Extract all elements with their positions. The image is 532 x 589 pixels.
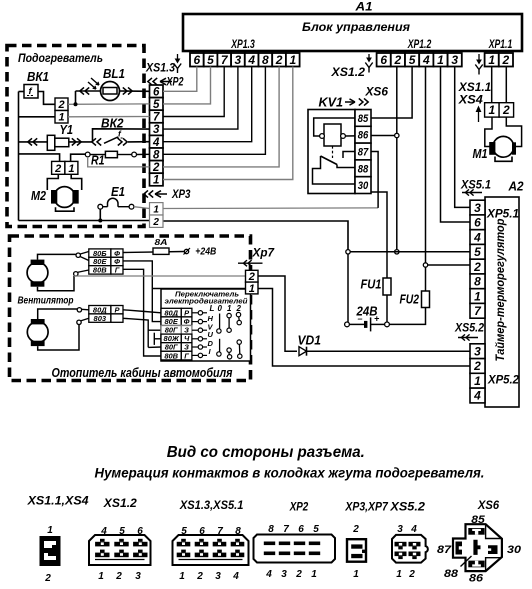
wire 80B row to fuse to +24V: [123, 248, 190, 255]
relay KV1 marker arrows: [345, 98, 368, 105]
connector XS4 pin row 1 2: [485, 103, 514, 118]
svg-text:XS5.2: XS5.2: [389, 502, 425, 514]
face view relay socket XS6: [437, 514, 522, 585]
svg-text:2: 2: [352, 524, 359, 535]
wire XP1.1 pin 1 to XS4 pin 1: [491, 67, 493, 103]
svg-text:86: 86: [358, 130, 369, 142]
connector XP1.3 pin row 6 5 7 3 4 8 2 1: [190, 53, 300, 67]
svg-text:2: 2: [44, 573, 51, 584]
svg-text:3: 3: [281, 569, 287, 580]
wire R1 left terminal to M2 junction 1: [71, 154, 86, 161]
svg-text:3: 3: [397, 524, 403, 535]
wire XP1.2 pin 2 down with node to relay 86: [371, 67, 399, 255]
switch bridge column 2 upper: [236, 312, 241, 324]
svg-text:Г: Г: [184, 351, 189, 360]
wire relay pin 85 to coil: [314, 118, 355, 136]
svg-text:5: 5: [474, 245, 481, 259]
svg-text:XS5.2: XS5.2: [454, 323, 484, 335]
wire E1 right to XP3 pin 1: [134, 207, 150, 209]
wire XS4 pin2 to M1 right brush: [506, 117, 521, 146]
svg-text:803: 803: [94, 314, 107, 323]
svg-text:2: 2: [502, 53, 510, 67]
wire relay pin 88 to contact: [337, 165, 355, 168]
wire XP3 pin2 to battery minus junction: [163, 221, 348, 250]
wire tag boxes 80B/F 80E/F 80V/G: [89, 249, 123, 275]
svg-text:2: 2: [295, 569, 302, 580]
relay contact armature: [321, 156, 338, 165]
svg-text:+24В: +24В: [195, 246, 216, 257]
connector XS1.2 marker: [365, 54, 372, 73]
wire junction2 right, node to lamp and XP2 pin 5: [68, 91, 150, 106]
svg-text:2: 2: [275, 53, 283, 67]
svg-text:XS1.1,XS4: XS1.1,XS4: [27, 496, 90, 508]
svg-text:ХР2: ХР2: [166, 77, 184, 89]
svg-text:2: 2: [196, 571, 203, 582]
svg-text:М2: М2: [31, 189, 46, 203]
wire XS4 pin1 to M1 left brush: [485, 117, 492, 146]
wire fan2 top terminal to contact 80D: [38, 308, 89, 319]
relay armature dashed link: [332, 146, 334, 158]
svg-text:1: 1: [47, 525, 53, 536]
terminal junction boxes 2/1 (heater connector X1): [55, 98, 68, 124]
svg-text:XS1.1: XS1.1: [458, 82, 492, 94]
svg-text:1: 1: [289, 53, 296, 67]
wire 80E row to switch row 2: [123, 261, 161, 322]
svg-text:6: 6: [153, 86, 160, 98]
svg-text:6: 6: [298, 524, 304, 535]
svg-text:8: 8: [268, 524, 274, 535]
connector Xp7 pin column 2 1: [246, 270, 259, 295]
wire XP2 pin 1 to XP1.3 pin 1: [163, 67, 293, 180]
switch bridge column 2 lower: [237, 340, 242, 359]
diode VD1: [299, 347, 307, 356]
wire VD1 to XS5.2 pin 3: [307, 350, 471, 352]
wire XP1.2 pin 4 down to FU2 node: [423, 67, 427, 268]
connector XP5.1 pin column 3 6 4 5 2 8 1 7: [470, 200, 485, 318]
svg-text:1: 1: [68, 163, 74, 175]
motor M2: [51, 187, 79, 212]
svg-text:5: 5: [313, 524, 319, 535]
wire XP2 pin 2 to XP1.3 pin 2: [163, 67, 279, 167]
wire XP2 pin 8 to XP1.3 pin 8: [163, 67, 265, 155]
svg-text:80В: 80В: [93, 266, 107, 275]
thermal switch BK1: [24, 85, 38, 99]
svg-text:ХР2: ХР2: [289, 502, 309, 514]
svg-text:5: 5: [153, 99, 160, 111]
wire BK1 right to junction 2: [38, 92, 55, 105]
svg-text:6: 6: [193, 53, 200, 67]
wire minus rail to XP5.1 pin 5: [346, 250, 470, 254]
wire XP2 pin 7 to XP1.3 pin 7: [163, 67, 224, 117]
svg-text:FU1: FU1: [361, 278, 382, 292]
solenoid valve Y1: [47, 135, 69, 150]
svg-text:88: 88: [358, 163, 369, 175]
svg-text:Нумерация контактов в колодках: Нумерация контактов в колодках жгута под…: [95, 465, 485, 480]
svg-text:1: 1: [437, 53, 444, 67]
svg-text:3: 3: [451, 53, 458, 67]
svg-text:4: 4: [410, 524, 417, 535]
svg-text:–: –: [358, 314, 363, 324]
lamp BL1: [101, 82, 120, 101]
face view connector XS1.2: [89, 526, 151, 582]
motor M1: [489, 136, 516, 161]
svg-text:Блок управления: Блок управления: [302, 20, 411, 34]
wire tag boxes 80D/R 803: [89, 305, 123, 322]
connector XP3 marker arrows: [144, 190, 167, 197]
motor M2 junction boxes 2/1: [52, 161, 78, 174]
svg-text:ХР3: ХР3: [171, 189, 191, 201]
svg-text:Е1: Е1: [111, 185, 125, 199]
fuse FU2: [422, 291, 430, 308]
svg-text:1: 1: [311, 569, 317, 580]
wire junction1 left to common: [19, 116, 56, 118]
wire switch common to Xp7 pin 1: [152, 288, 246, 290]
svg-text:1: 1: [474, 289, 481, 303]
svg-text:FU2: FU2: [400, 292, 420, 306]
wire fan1 bottom terminal to contact 80V: [38, 270, 89, 291]
svg-text:BL1: BL1: [103, 67, 125, 81]
svg-text:+: +: [374, 314, 380, 324]
control unit A1 box: [183, 0, 522, 51]
svg-text:1: 1: [153, 204, 159, 215]
resistor R1: [85, 151, 136, 157]
svg-text:86: 86: [469, 573, 484, 585]
wire 803 row to switch rows 3 and 5 bracket: [123, 318, 161, 347]
svg-text:1: 1: [58, 112, 64, 124]
connector XP1.1 pin row 1 2: [485, 53, 513, 67]
connector Xp7 marker arrows: [238, 260, 263, 266]
svg-text:R1: R1: [91, 154, 105, 168]
svg-text:30: 30: [358, 180, 369, 192]
switch wire tag rows 80D/R 80E/F 80G/Z 80Zh/Ch 80G/Z 80V/G: [161, 308, 192, 360]
wire junction 1 to M2 right brush: [71, 174, 82, 190]
switch row contacts: [192, 311, 207, 358]
connector XS1.1 marker arrow: [475, 54, 482, 75]
wire common left vertical (BK1/junction/Y1 to bottom rail): [18, 92, 20, 221]
svg-text:А1: А1: [354, 0, 372, 14]
connector XS5.2 marker arrows: [458, 334, 478, 340]
wire FU2 top to node to XP5.1 pin 2: [425, 267, 427, 291]
wire XP2 pin 3 to XP1.3 pin 3: [163, 67, 238, 130]
wire junction 2 to M2 left brush: [47, 174, 58, 190]
wire XP1.2 pin 5 to relay 85: [371, 67, 412, 119]
connector XS1.3 marker arrow: [174, 54, 181, 73]
svg-text:XS1.3: XS1.3: [145, 63, 175, 75]
svg-text:4: 4: [265, 569, 272, 580]
svg-text:30: 30: [507, 544, 522, 556]
wire Y1 left with connector arrows: [19, 138, 48, 145]
wire battery minus up to rail junction: [347, 254, 349, 322]
wire relay pin 86 to coil: [345, 135, 355, 137]
wire XP1.2 pin 3 to XP5.1 pin 3: [455, 67, 470, 208]
svg-text:3: 3: [215, 571, 221, 582]
svg-text:Г: Г: [115, 266, 120, 275]
svg-text:8: 8: [262, 53, 269, 67]
svg-text:ВК1: ВК1: [27, 70, 49, 84]
svg-text:XS6: XS6: [364, 87, 388, 99]
wire lamp right to XP2 pin 6 with connector arrows: [120, 87, 150, 94]
svg-text:2: 2: [57, 99, 64, 111]
svg-text:Хр7: Хр7: [251, 247, 274, 259]
svg-text:М1: М1: [473, 147, 488, 161]
fuse FU1: [383, 278, 391, 295]
svg-text:U: U: [208, 330, 214, 339]
switch bridge column 1 lower: [227, 348, 232, 359]
svg-text:KV1: KV1: [319, 96, 344, 110]
svg-text:4: 4: [152, 137, 160, 149]
relay KV1 pin column 85 86 87 88 30: [355, 110, 371, 194]
wire 80V row to switch row 6: [123, 269, 161, 356]
face view connector XS5.2: [392, 524, 428, 580]
svg-text:5: 5: [409, 53, 416, 67]
svg-text:3: 3: [235, 53, 242, 67]
connector XP5.2 pin column 3 2 1 4: [470, 344, 485, 403]
svg-text:XS6: XS6: [477, 500, 500, 512]
svg-text:1: 1: [353, 569, 359, 580]
face view connector XS1.3/XS5.1: [173, 526, 249, 582]
wire junction1 right to XP2 pin 7: [68, 116, 150, 118]
face view connector XP2: [254, 524, 336, 580]
wire node to XP5.1 pin 2: [428, 264, 470, 266]
svg-text:ХР5.2: ХР5.2: [487, 373, 519, 387]
wire BK2 bypass to XP2 pin 3: [93, 129, 150, 142]
wire R1 right terminal to XP2 pin 8: [137, 153, 150, 155]
connector XP2 marker arrows: [148, 78, 172, 85]
wire battery plus rail to FU2: [389, 308, 425, 325]
svg-text:2: 2: [54, 163, 61, 175]
wire XP1.2 pin 1 to XP5.1 pin 6: [441, 67, 471, 223]
wire M2 junction 2 from common: [19, 154, 60, 162]
connector XP1.2 pin row 6 2 5 4 1 3: [377, 53, 462, 67]
wire BK1 left to common: [19, 91, 25, 93]
svg-text:85: 85: [358, 113, 369, 125]
svg-text:2: 2: [408, 569, 415, 580]
svg-text:4: 4: [473, 230, 481, 244]
svg-text:4: 4: [473, 389, 481, 403]
wire Xp7 pin 2 to VD1 line: [258, 276, 297, 351]
svg-text:2: 2: [473, 359, 481, 373]
wire BK2 right to XP2 pin 4: [128, 141, 150, 143]
svg-text:3: 3: [474, 345, 481, 359]
svg-text:4: 4: [422, 53, 430, 67]
wire relay pin 30 to armature pivot: [313, 156, 356, 184]
connector XS5.1 marker arrows: [462, 189, 482, 195]
svg-text:А2: А2: [508, 180, 524, 194]
motor switch box (Переключатель электродвигателей): [161, 289, 251, 361]
svg-text:XS1.2: XS1.2: [103, 498, 138, 510]
switch terminal letters H V U D I: [208, 314, 214, 356]
thermal switch BK2 contact: [92, 129, 127, 146]
wire XP2 pin 4 to XP1.3 pin 4: [163, 67, 252, 142]
wire XP1.1 pin 2 to XS4 pin 2: [505, 67, 507, 103]
wire switch row 4 stub link: [154, 333, 161, 345]
svg-text:Подогреватель: Подогреватель: [18, 51, 103, 65]
svg-text:2: 2: [394, 53, 402, 67]
svg-text:Вентилятор: Вентилятор: [18, 295, 74, 307]
wire battery plus to FU1 and relay 30: [386, 295, 388, 322]
svg-text:1: 1: [396, 569, 402, 580]
fan motor 1 (upper): [27, 260, 48, 287]
svg-text:87: 87: [358, 147, 369, 159]
svg-text:ХР5.1: ХР5.1: [486, 207, 519, 221]
wire FU1 top to relay pin 30: [371, 192, 387, 278]
switch bridge column 0 upper: [217, 314, 221, 334]
svg-text:ХР1.1: ХР1.1: [488, 37, 512, 51]
svg-text:XS4: XS4: [458, 94, 484, 106]
svg-text:VD1: VD1: [298, 333, 322, 347]
lamp BL1 light rays: [88, 78, 99, 89]
svg-text:2: 2: [236, 304, 242, 313]
svg-text:7: 7: [283, 524, 289, 535]
svg-text:L: L: [210, 304, 215, 313]
switch position header L 0 1 2: [210, 304, 242, 313]
relay KV1 coil: [320, 124, 346, 146]
svg-text:2: 2: [152, 217, 159, 228]
face view connector XP3/XP7: [347, 524, 366, 580]
switch bridge column 1 upper: [227, 313, 231, 332]
svg-text:8: 8: [153, 149, 160, 161]
wire relay 87 down leg: [371, 152, 378, 208]
wire fan2 bottom terminal to contact 803: [38, 318, 89, 350]
svg-text:1: 1: [489, 103, 496, 117]
svg-text:2: 2: [115, 571, 122, 582]
wire E1 left to common rail: [98, 209, 102, 222]
wire lamp left with connector arrows: [76, 87, 101, 94]
wire bottom common rail of heater: [19, 220, 150, 222]
svg-text:ХР1.2: ХР1.2: [407, 37, 431, 51]
svg-text:Отопитель кабины автомобиля: Отопитель кабины автомобиля: [52, 366, 234, 380]
svg-text:6: 6: [380, 53, 387, 67]
svg-text:Вид со стороны разъема.: Вид со стороны разъема.: [167, 444, 365, 461]
svg-text:XS5.1: XS5.1: [460, 180, 491, 192]
svg-text:Таймер-терморегулятор: Таймер-терморегулятор: [495, 219, 507, 362]
svg-text:1: 1: [179, 571, 185, 582]
svg-text:Y1: Y1: [60, 123, 74, 137]
svg-text:2: 2: [502, 103, 510, 117]
wire fan1 top terminal to contact 80B/80E: [38, 252, 89, 261]
battery GB 24V: [345, 314, 390, 332]
svg-text:1: 1: [488, 53, 495, 67]
svg-text:6: 6: [474, 216, 481, 230]
wire fan1 bottom node to Xp7 pin 2 (grey): [74, 275, 246, 277]
svg-text:XS1.2: XS1.2: [330, 67, 365, 79]
svg-text:3: 3: [153, 124, 160, 136]
wire Xp7 pin 1 to XS5.2 pin 2: [258, 289, 470, 367]
timer-thermoregulator A2 box: [485, 197, 519, 407]
wire R1 left terminal stub to XP2 pin 2: [88, 157, 150, 167]
svg-text:1: 1: [227, 304, 232, 313]
svg-text:ХР3,ХР7: ХР3,ХР7: [344, 502, 388, 514]
svg-text:0: 0: [218, 304, 223, 313]
svg-text:80В: 80В: [164, 351, 178, 360]
svg-text:87: 87: [437, 544, 452, 556]
cab heater dashed box (Отопитель кабины автомобиля): [10, 236, 251, 381]
svg-text:2: 2: [473, 260, 481, 274]
connector XP2 pin column 6 5 7 3 4 8 2 1: [150, 85, 164, 187]
svg-text:7: 7: [153, 112, 160, 124]
fan motor 2 (lower): [27, 319, 48, 346]
svg-text:ХР1.3: ХР1.3: [231, 37, 255, 51]
svg-text:1: 1: [474, 374, 481, 388]
svg-text:4: 4: [247, 53, 255, 67]
svg-text:8: 8: [474, 275, 481, 289]
svg-text:4: 4: [232, 571, 239, 582]
svg-text:1: 1: [153, 175, 159, 187]
svg-text:XS1.3,XS5.1: XS1.3,XS5.1: [179, 500, 243, 512]
heater unit dashed box (Подогреватель): [7, 46, 144, 227]
svg-text:8А: 8А: [155, 237, 168, 247]
connector XP3 pin column 1 2: [150, 203, 164, 228]
switch bridge column 0 lower: [217, 339, 221, 356]
svg-text:1: 1: [98, 571, 104, 582]
face view connector XS1.1/XS4: [40, 525, 61, 584]
glow plug E1: [98, 198, 134, 209]
connector XS4 marker arrow up: [476, 106, 482, 123]
svg-text:3: 3: [474, 201, 481, 215]
svg-text:5: 5: [207, 53, 214, 67]
wire XP2 pin 6 to XP1.3 pin 6: [163, 67, 197, 92]
wire XP2 pin 5 to XP1.3 pin 5: [163, 67, 211, 104]
svg-text:3: 3: [135, 571, 141, 582]
relay KV1 outer box: [308, 110, 355, 194]
wire XP3 pin 1 to relay contact 87 (grey): [163, 207, 378, 210]
wire 80D row to switch row 1: [123, 310, 161, 313]
wire Y1 right with connector arrows to BK2 node: [69, 138, 93, 145]
relay contact 87 fixed: [343, 152, 355, 159]
svg-text:88: 88: [444, 568, 459, 580]
svg-text:1: 1: [249, 283, 255, 295]
svg-text:2: 2: [152, 162, 160, 174]
